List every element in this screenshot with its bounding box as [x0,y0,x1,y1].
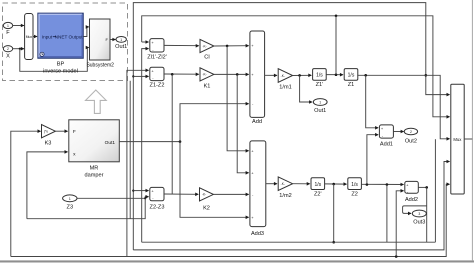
svg-text:-K-: -K- [281,74,285,78]
svg-text:Subsystem2: Subsystem2 [86,62,114,68]
wire Z3 to Z2-Z3 in2 [77,197,148,199]
svg-text:Z1-Z2: Z1-Z2 [150,82,165,88]
svg-text:2: 2 [410,130,412,134]
window bottom border [0,260,474,262]
wire K3 to MR damper F [55,130,67,132]
svg-text:MR: MR [90,165,99,171]
svg-text:K3: K3 [45,141,52,147]
svg-text:damper: damper [85,172,104,178]
inport F (1) [3,22,12,36]
integrator Z2 [348,178,362,198]
wire line D bottom rail to Mux in5 [11,184,450,256]
gain 1/m1 [278,69,292,91]
wire cross link down to K2 input wire [171,74,173,194]
integrator Z2' [311,178,325,198]
svg-text:K2: K2 [203,206,210,212]
dashed annotation box around inverse-model controller [3,3,128,81]
wire 1/m1 to integrator Z1-prime [293,74,312,76]
wire K2 to Add3 in3 [213,193,248,195]
integrator Z1' [313,69,327,89]
svg-text:Z2-Z3: Z2-Z3 [150,205,165,211]
integrator Z1 [344,69,358,89]
wire force node up to Add in3 [180,104,249,142]
wire Z3 branch along bottom to MR x riser [27,198,145,218]
wire Z1-prime to Z1 [326,74,343,76]
svg-text:1/m1: 1/m1 [279,85,291,91]
wire Z2 to Add2 in1 [361,183,403,185]
junction left rail to Z2-Z3 in1 [132,190,134,192]
svg-text:K1: K1 [204,84,211,90]
wire K1 branch down to Add3 in2 [237,74,248,172]
svg-text:Add3: Add3 [251,231,264,237]
mux Mux1 [25,14,33,60]
svg-text:(*u: (*u [44,130,48,134]
wire top rail T2 into Mux in2 [142,16,450,117]
wire line B right riser toward Mux in3 rail [434,139,436,242]
svg-text:F: F [73,129,76,135]
subtract Z2-Z3 [150,187,165,210]
wire line D riser to Add2 in2 [396,191,403,257]
outport Out1 (controller) [115,37,127,50]
svg-text:1: 1 [69,197,71,201]
svg-text:Out3: Out3 [413,219,425,225]
junction Z1 tap for Add1 [364,74,367,77]
svg-text:CI: CI [204,55,210,61]
subtract Z1-Z2 [150,67,165,88]
window right border [471,0,473,260]
wire line D riser into Z1-Z2 in1 [127,70,148,256]
junction T1 riser with Z1 wire [425,74,428,77]
junction Z2-prime on line B [332,241,335,244]
junction left rail to Z1-Z2 in2 [132,75,134,77]
wire CI to Add in1 [214,45,249,47]
wire Mux1 to BP model [33,36,37,38]
wire T2 riser into Zl1-Zl2 in1 [142,41,149,43]
wire CI branch down to Add3 in1 [227,46,248,151]
junction Z1-prime velocity tap [335,73,338,76]
wire 1/m2 to integrator Z2-prime [293,183,310,185]
junction force node [179,140,182,143]
mux Mux (output) [451,84,464,194]
svg-text:1: 1 [120,38,122,42]
svg-text:Add: Add [252,119,262,125]
svg-text:Z1': Z1' [316,82,324,88]
svg-text:1: 1 [7,24,9,28]
svg-text:Input: Input [42,35,53,40]
svg-text:3: 3 [418,212,420,216]
svg-text:Z1: Z1 [348,82,355,88]
wire BP to Subsystem2 in1 [83,27,88,37]
junction line D to Add2 in2 [395,255,398,258]
wire Add2 out down to line B [426,187,428,242]
junction on X wire [19,48,21,50]
MR damper block [69,120,120,179]
wire top rail T1 into Mux in1 [133,3,449,250]
wire Add to 1/m1 [265,74,277,76]
junction Add2 output [425,186,428,189]
wire line C bottom rail to Mux in4 [133,162,449,250]
junction Z2-prime tap [332,183,335,186]
svg-text:BP: BP [57,61,65,67]
wire line B bottom inner rail [142,241,436,243]
wire Add3 to 1/m2 [266,183,277,185]
gain K1 [200,68,214,90]
junction Z2 tap for Add1 [366,183,369,186]
svg-text:-K-: -K- [202,73,206,77]
wire bottom line D up to K3 input [11,131,41,256]
wire Z2-prime tap down to line B [333,184,335,242]
svg-text:Add1: Add1 [380,141,393,147]
subsystem Subsystem2 [86,19,114,68]
svg-text:1/m2: 1/m2 [279,193,291,199]
BP inverse model NNET block [38,13,83,74]
wire Mux output to window edge [464,138,472,140]
svg-text:1/s: 1/s [314,182,321,188]
gain 1/m2 [278,177,292,199]
svg-text:Z3: Z3 [67,205,74,211]
wire Subsystem2 to Out1 port [110,39,115,41]
svg-text:Out1: Out1 [105,140,116,146]
wire left rail into Z1-Z2 in2 [133,75,148,77]
junction Z1-prime riser on T2 [335,15,338,18]
wire MR damper Out1 to force node [119,141,180,143]
wire Add2 output [418,186,426,188]
gain K2 [200,188,214,212]
svg-text:Out1: Out1 [314,108,326,114]
svg-text:Add2: Add2 [405,197,418,203]
wire X to Mux1 [13,48,24,50]
wire Z1-prime tap up to T2 [335,16,337,75]
junction after 1/m1 [298,74,301,77]
svg-text:NNET Output: NNET Output [55,35,84,40]
wire line B riser into Zl1-Zl2 in2 [142,49,149,243]
junction on Z3 wire [144,197,146,199]
svg-text:Mux: Mux [453,137,462,142]
wire Z2-Z3 to K2 [164,193,198,195]
hollow block arrow annotation [86,90,107,113]
svg-text:-K-: -K- [281,182,285,186]
svg-text:-K-: -K- [202,44,206,48]
svg-text:1/s: 1/s [351,182,358,188]
svg-text:X: X [6,53,10,59]
sum Add3 [250,141,266,237]
outport Out2 [404,128,417,144]
junction on K1 input wire [171,73,174,76]
svg-text:1/s: 1/s [348,73,355,79]
gain K3 [42,125,56,147]
wire Z1-Z2 to K1 [164,73,199,75]
svg-text:F: F [6,30,10,36]
wire Z2-prime to Z2 [325,183,347,185]
svg-text:1/s: 1/s [316,73,323,79]
sum Add1 [379,125,393,147]
outport Out1 (acceleration) [313,99,327,114]
wire Z1 tap down to Add1 in1 [366,75,378,128]
svg-text:-K-: -K- [202,193,206,197]
sum Add [250,31,265,125]
sum Add2 [405,181,419,203]
inport Z3 (road) [63,195,77,211]
wire Z2 tap down to line B [386,185,388,243]
outport Out3 [412,210,426,225]
svg-text:2: 2 [7,47,9,51]
wire controller rail down to bottom feed line [129,81,131,219]
svg-text:1: 1 [319,101,321,105]
svg-text:Z2: Z2 [351,191,358,197]
wire Add1 to Out2 [393,131,403,133]
wire Zl1-Zl2 to CI [164,44,199,46]
svg-text:Zl1'-Zl2': Zl1'-Zl2' [147,54,167,60]
gain CI [200,39,214,60]
wire Z1 output to Mux in3 [358,75,450,139]
junction on K1 output [236,73,239,76]
wire Z2 tap up to Add1 in2 [367,135,378,185]
svg-text:inverse model: inverse model [43,68,78,74]
wire branch down to Out1 [300,75,312,102]
wire Add2 loop into Out3 [403,206,427,214]
svg-text:Z2': Z2' [314,191,322,197]
junction on CI output [226,45,229,48]
junction Z2 tap for line B [386,183,389,186]
wire K1 to Add in2 [214,73,249,75]
wire force node down to Add3 in4 [180,142,249,218]
svg-text:Mux: Mux [26,35,33,39]
svg-text:Out1: Out1 [115,44,127,50]
svg-text:Out2: Out2 [405,138,417,144]
wire bottom feed up to MR damper x [27,152,68,219]
wire left rail into Z2-Z3 in1 [133,190,148,192]
wire F to Mux1 [13,25,24,27]
subtract Zl1'-Zl2' [147,39,167,61]
wire X branch to Subsystem2 in2 [20,48,89,72]
inport X (2) [3,46,12,60]
